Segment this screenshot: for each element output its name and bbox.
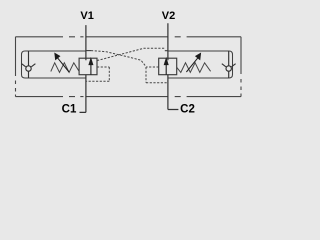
svg-text:V1: V1 xyxy=(80,10,93,22)
svg-text:C1: C1 xyxy=(62,104,77,116)
svg-text:V2: V2 xyxy=(162,10,175,22)
svg-text:C2: C2 xyxy=(180,104,195,116)
